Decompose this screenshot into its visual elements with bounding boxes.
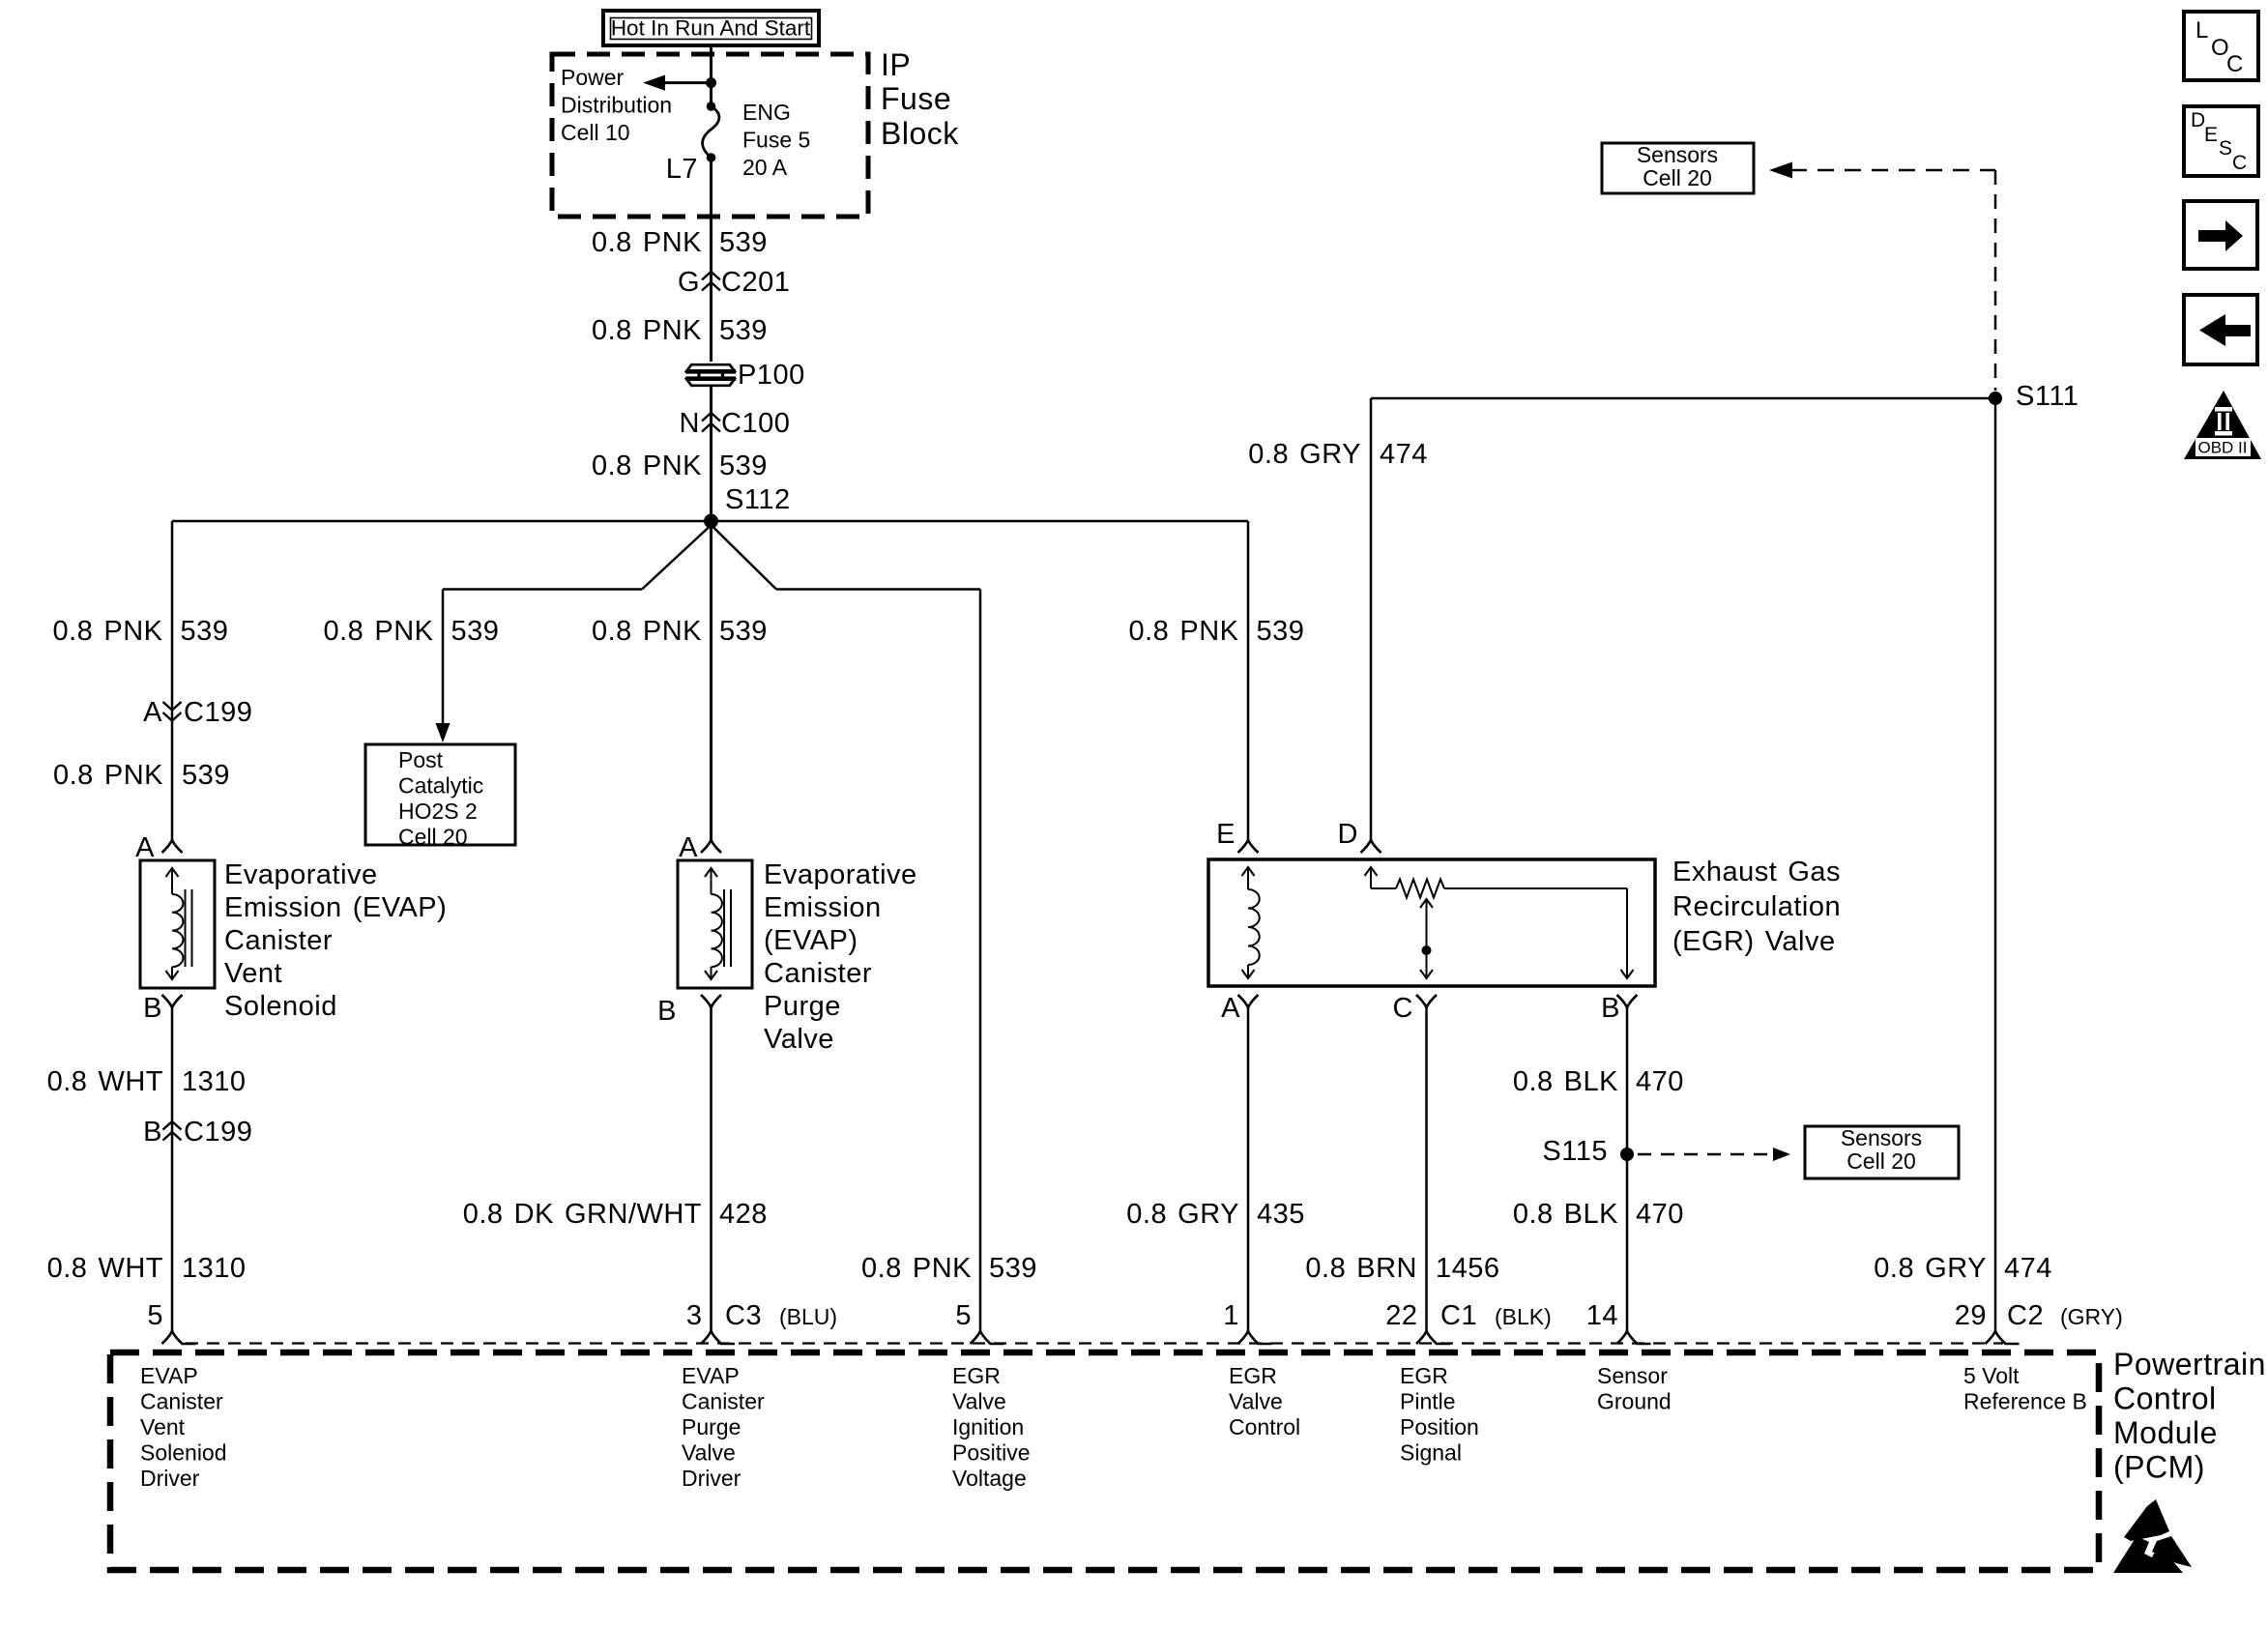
svg-text:Emission (EVAP): Emission (EVAP) — [224, 892, 447, 923]
wire S112 diagonal left — [642, 527, 710, 590]
splice S112 — [704, 514, 718, 529]
svg-text:539: 539 — [1257, 616, 1305, 647]
wire resistor to pin B leg — [1444, 887, 1627, 889]
svg-text:L7: L7 — [666, 154, 698, 185]
connector C199 pin A chevrons — [163, 702, 182, 721]
terminal pin 5 EVAP vent — [162, 1331, 196, 1344]
svg-text:1310: 1310 — [182, 1253, 247, 1284]
svg-text:EVAP: EVAP — [682, 1363, 740, 1388]
arrowhead into Post Catalytic HO2S 2 — [436, 723, 451, 742]
svg-text:Valve: Valve — [952, 1389, 1006, 1414]
svg-text:S112: S112 — [725, 484, 791, 515]
svg-text:470: 470 — [1636, 1066, 1684, 1097]
EGR solenoid coil element — [1247, 867, 1249, 889]
purge valve coil element — [711, 868, 712, 894]
svg-text:0.8 PNK: 0.8 PNK — [53, 760, 163, 791]
svg-text:Module: Module — [2113, 1415, 2218, 1450]
terminal pin 1 EGR valve control — [1238, 1331, 1272, 1344]
box Sensors Cell 20 (top) — [1602, 143, 1754, 193]
Powertrain Control Module dashed outline — [110, 1352, 2099, 1570]
svg-text:Control: Control — [2113, 1381, 2217, 1416]
svg-text:Power: Power — [561, 65, 625, 90]
svg-text:S111: S111 — [2016, 381, 2079, 412]
EVAP canister vent solenoid box — [140, 860, 215, 988]
terminal A vent solenoid — [162, 840, 183, 853]
svg-text:0.8 PNK: 0.8 PNK — [53, 616, 163, 647]
splice S111 — [1989, 392, 2002, 405]
fuse bottom terminal dot — [707, 153, 716, 162]
svg-text:Post: Post — [398, 747, 444, 772]
wire down to Post Catalytic arrow — [442, 590, 445, 728]
svg-text:0.8 BLK: 0.8 BLK — [1513, 1199, 1618, 1230]
svg-text:Cell 20: Cell 20 — [1846, 1148, 1916, 1174]
terminal B vent solenoid — [162, 995, 183, 1007]
svg-text:Purge: Purge — [682, 1414, 741, 1439]
svg-text:0.8 PNK: 0.8 PNK — [861, 1253, 972, 1284]
svg-text:EVAP: EVAP — [140, 1363, 198, 1388]
wire fuse to S112 — [710, 158, 712, 521]
svg-text:D: D — [1338, 819, 1358, 850]
svg-text:5 Volt: 5 Volt — [1963, 1363, 2020, 1388]
svg-text:ENG: ENG — [742, 100, 791, 125]
svg-text:C201: C201 — [721, 267, 790, 298]
svg-text:Control: Control — [1229, 1414, 1300, 1439]
svg-text:Signal: Signal — [1400, 1440, 1462, 1466]
svg-text:539: 539 — [451, 616, 500, 647]
svg-text:C: C — [2226, 51, 2243, 77]
svg-text:C: C — [2232, 152, 2247, 174]
arrowhead to Sensors Cell 20 — [1769, 162, 1792, 179]
PCM connector face dashed line — [186, 1342, 2003, 1344]
box Sensors Cell 20 (lower) — [1805, 1126, 1959, 1178]
connector C201 chevrons — [702, 272, 720, 291]
wire S112 diagonal right — [713, 527, 777, 590]
svg-text:474: 474 — [1380, 439, 1428, 470]
icon box LOC — [2184, 12, 2258, 80]
svg-text:L: L — [2195, 17, 2208, 44]
svg-text:22: 22 — [1385, 1300, 1417, 1331]
icon OBD II triangle — [2184, 391, 2261, 459]
fuse ENG Fuse 5 20 A element — [703, 106, 719, 158]
potentiometer resistor zigzag — [1396, 880, 1444, 898]
svg-text:(PCM): (PCM) — [2113, 1450, 2205, 1485]
svg-text:Driver: Driver — [140, 1466, 200, 1491]
svg-text:HO2S 2: HO2S 2 — [398, 799, 478, 824]
svg-text:Pintle: Pintle — [1400, 1389, 1456, 1414]
svg-text:S: S — [2219, 137, 2232, 160]
vent solenoid core line 1 — [185, 889, 187, 967]
box Hot In Run And Start (outer) — [603, 11, 819, 45]
svg-text:Sensor: Sensor — [1597, 1363, 1668, 1388]
svg-text:P100: P100 — [738, 360, 805, 391]
svg-text:539: 539 — [719, 315, 768, 346]
svg-text:0.8 PNK: 0.8 PNK — [1129, 616, 1239, 647]
wire purge valve to PCM pin 3 — [710, 1007, 712, 1331]
wire junction to fuse — [710, 83, 712, 106]
box Post Catalytic HO2S 2 Cell 20 — [365, 744, 515, 845]
potentiometer wiper — [1420, 899, 1433, 908]
svg-text:Valve: Valve — [682, 1440, 736, 1466]
terminal pin 5 EGR ignition — [971, 1331, 1004, 1344]
wire S112 to EGR pin E — [1247, 521, 1250, 840]
wire header to junction — [710, 45, 712, 83]
terminal pin 14 sensor ground — [1617, 1331, 1651, 1344]
arrowhead to Power Distribution — [643, 75, 665, 91]
EGR internal line to pin B — [1626, 888, 1628, 978]
svg-text:A: A — [679, 832, 698, 863]
EGR valve box — [1208, 859, 1655, 986]
svg-text:C100: C100 — [721, 408, 790, 439]
EGR pintle position potentiometer — [1365, 867, 1378, 876]
svg-text:Cell 10: Cell 10 — [561, 120, 630, 145]
svg-text:5: 5 — [955, 1300, 972, 1331]
svg-text:Powertrain: Powertrain — [2113, 1347, 2266, 1381]
icon box DESC — [2184, 106, 2258, 176]
EVAP canister purge valve box — [678, 860, 752, 988]
svg-text:N: N — [680, 408, 700, 439]
svg-text:S115: S115 — [1542, 1136, 1608, 1167]
svg-text:Ignition: Ignition — [952, 1414, 1024, 1439]
svg-text:1310: 1310 — [182, 1066, 247, 1097]
svg-text:Positive: Positive — [952, 1440, 1031, 1466]
svg-text:Vent: Vent — [140, 1414, 186, 1439]
svg-text:539: 539 — [719, 451, 768, 481]
svg-text:C: C — [1393, 993, 1413, 1024]
ESD sensitive device symbol — [2124, 1499, 2169, 1541]
svg-text:Canister: Canister — [764, 958, 872, 989]
svg-text:Evaporative: Evaporative — [224, 859, 378, 890]
svg-text:0.8 BLK: 0.8 BLK — [1513, 1066, 1618, 1097]
arrowhead to Sensors Cell 20 (lower) — [1773, 1148, 1790, 1161]
svg-text:0.8 GRY: 0.8 GRY — [1126, 1199, 1239, 1230]
dashed wire S111 up to Sensors — [1994, 170, 1997, 391]
svg-text:539: 539 — [989, 1253, 1037, 1284]
svg-text:Distribution: Distribution — [561, 93, 672, 118]
svg-text:C3: C3 — [725, 1300, 762, 1331]
svg-text:B: B — [143, 1117, 162, 1148]
svg-text:Catalytic: Catalytic — [398, 773, 483, 799]
svg-text:C199: C199 — [184, 1117, 252, 1148]
terminal A purge valve — [701, 840, 721, 853]
svg-text:Valve: Valve — [1229, 1389, 1283, 1414]
svg-text:Sensors: Sensors — [1637, 142, 1718, 167]
svg-text:Fuse 5: Fuse 5 — [742, 128, 810, 153]
svg-text:Position: Position — [1400, 1414, 1479, 1439]
svg-text:0.8 PNK: 0.8 PNK — [592, 616, 702, 647]
svg-text:(EVAP): (EVAP) — [764, 925, 858, 956]
svg-text:Emission: Emission — [764, 892, 882, 923]
svg-text:Vent: Vent — [224, 958, 282, 989]
IP Fuse Block dashed outline — [552, 54, 868, 217]
icon box left arrow — [2184, 295, 2257, 364]
svg-text:Reference B: Reference B — [1963, 1389, 2087, 1414]
icon right arrow — [2198, 220, 2243, 251]
svg-text:C199: C199 — [184, 697, 252, 728]
svg-text:Driver: Driver — [682, 1466, 741, 1491]
svg-text:Valve: Valve — [764, 1024, 834, 1055]
svg-text:C2: C2 — [2007, 1300, 2044, 1331]
wire down to EGR pin D — [1370, 398, 1373, 840]
wire EGR A to PCM pin 1 — [1247, 1007, 1250, 1331]
svg-text:539: 539 — [182, 760, 230, 791]
terminal D EGR — [1361, 840, 1381, 853]
svg-text:14: 14 — [1586, 1300, 1618, 1331]
terminal pin 22 EGR pintle — [1416, 1331, 1450, 1344]
svg-text:539: 539 — [719, 616, 768, 647]
svg-text:Hot In Run And Start: Hot In Run And Start — [611, 16, 811, 41]
svg-text:(GRY): (GRY) — [2060, 1304, 2123, 1329]
vent solenoid core line 2 — [191, 889, 193, 967]
svg-text:539: 539 — [719, 227, 768, 258]
wire to Post Catalytic branch — [443, 588, 642, 591]
svg-text:Canister: Canister — [140, 1389, 223, 1414]
purge valve core line 1 — [723, 889, 725, 967]
wire to EGR ignition voltage branch — [776, 588, 980, 591]
svg-text:Soleniod: Soleniod — [140, 1440, 227, 1466]
terminal pin 3 EVAP purge — [701, 1331, 735, 1344]
svg-text:(EGR) Valve: (EGR) Valve — [1672, 926, 1836, 957]
svg-text:B: B — [143, 993, 162, 1024]
dashed wire S115 to Sensors — [1638, 1153, 1775, 1156]
OBD II label plate — [2195, 438, 2251, 456]
svg-text:Recirculation: Recirculation — [1672, 891, 1841, 922]
svg-text:G: G — [678, 267, 700, 298]
svg-text:Cell 20: Cell 20 — [1643, 165, 1712, 190]
svg-text:EGR: EGR — [1229, 1363, 1277, 1388]
svg-text:IP: IP — [881, 47, 911, 82]
svg-text:Solenoid: Solenoid — [224, 991, 337, 1022]
svg-text:0.8 GRY: 0.8 GRY — [1248, 439, 1361, 470]
junction dot — [706, 77, 716, 88]
svg-text:OBD II: OBD II — [2197, 439, 2247, 457]
svg-text:EGR: EGR — [1400, 1363, 1448, 1388]
icon box right arrow — [2184, 201, 2257, 269]
wiper junction dot — [1422, 945, 1432, 955]
svg-text:Voltage: Voltage — [952, 1466, 1027, 1491]
svg-text:5: 5 — [147, 1300, 163, 1331]
svg-text:EGR: EGR — [952, 1363, 1001, 1388]
wire S112 to EVAP purge valve — [710, 521, 712, 840]
svg-text:Ground: Ground — [1597, 1389, 1672, 1414]
svg-text:Cell 20: Cell 20 — [398, 825, 468, 850]
terminal E EGR — [1238, 840, 1259, 853]
svg-text:435: 435 — [1257, 1199, 1305, 1230]
svg-text:0.8 BRN: 0.8 BRN — [1305, 1253, 1417, 1284]
svg-text:Fuse: Fuse — [881, 81, 951, 116]
wire down to PCM pin 5 (EGR ignition) — [979, 590, 982, 1332]
svg-text:A: A — [143, 697, 162, 728]
svg-text:0.8 PNK: 0.8 PNK — [592, 451, 702, 481]
svg-text:A: A — [1221, 993, 1240, 1024]
svg-text:B: B — [1601, 993, 1620, 1024]
svg-text:Purge: Purge — [764, 991, 841, 1022]
wire S112 horizontal bus — [172, 520, 1248, 523]
svg-text:Sensors: Sensors — [1841, 1125, 1922, 1150]
svg-text:Block: Block — [881, 116, 959, 151]
svg-text:E: E — [1216, 819, 1236, 850]
svg-text:E: E — [2204, 124, 2218, 146]
wire to Power Distribution — [665, 81, 712, 84]
terminal B EGR — [1617, 995, 1638, 1007]
svg-text:29: 29 — [1955, 1300, 1987, 1331]
svg-text:0.8 DK GRN/WHT: 0.8 DK GRN/WHT — [463, 1199, 702, 1230]
terminal pin 29 5V ref — [1986, 1331, 2020, 1344]
connector C199 pin B chevrons — [163, 1121, 182, 1141]
svg-text:0.8 PNK: 0.8 PNK — [324, 616, 434, 647]
icon left arrow — [2199, 314, 2251, 346]
wire S112 to EVAP vent solenoid — [171, 521, 174, 840]
wire vent solenoid to PCM pin 5 — [171, 1007, 174, 1331]
OBD II roman numeral II — [2215, 407, 2232, 436]
svg-text:C1: C1 — [1440, 1300, 1477, 1331]
svg-text:0.8 PNK: 0.8 PNK — [592, 227, 702, 258]
wire S111 to PCM pin 29 — [1994, 398, 1997, 1331]
svg-text:0.8 WHT: 0.8 WHT — [47, 1253, 163, 1284]
svg-text:1456: 1456 — [1436, 1253, 1500, 1284]
svg-text:0.8 PNK: 0.8 PNK — [592, 315, 702, 346]
wire EGR B to PCM pin 14 — [1626, 1007, 1629, 1331]
vent solenoid coil element — [171, 868, 173, 894]
svg-text:539: 539 — [181, 616, 229, 647]
grommet P100 — [686, 362, 736, 386]
terminal B purge valve — [701, 995, 721, 1007]
svg-text:Canister: Canister — [224, 925, 333, 956]
box Hot In Run And Start (inner) — [611, 18, 812, 40]
svg-text:0.8 WHT: 0.8 WHT — [47, 1066, 163, 1097]
svg-text:3: 3 — [686, 1300, 703, 1331]
wire EGR C to PCM pin 22 — [1425, 1007, 1428, 1331]
svg-text:A: A — [135, 832, 155, 863]
wire S111 to EGR pin D — [1371, 397, 1995, 400]
svg-text:B: B — [657, 996, 677, 1027]
connector C100 chevrons — [702, 413, 720, 432]
svg-text:0.8 GRY: 0.8 GRY — [1874, 1253, 1987, 1284]
svg-text:D: D — [2191, 109, 2205, 131]
svg-text:1: 1 — [1223, 1300, 1239, 1331]
purge valve core line 2 — [730, 889, 732, 967]
svg-text:20 A: 20 A — [742, 155, 788, 180]
terminal A EGR — [1238, 995, 1259, 1007]
svg-text:470: 470 — [1636, 1199, 1684, 1230]
dashed wire to Sensors Cell 20 — [1790, 169, 1995, 172]
fuse top terminal dot — [707, 102, 716, 111]
svg-text:(BLU): (BLU) — [779, 1304, 837, 1329]
svg-text:428: 428 — [719, 1199, 768, 1230]
svg-text:474: 474 — [2004, 1253, 2052, 1284]
svg-text:Evaporative: Evaporative — [764, 859, 917, 890]
svg-text:Canister: Canister — [682, 1389, 765, 1414]
terminal C EGR — [1416, 995, 1437, 1007]
splice S115 — [1620, 1148, 1634, 1161]
svg-text:(BLK): (BLK) — [1495, 1304, 1552, 1329]
svg-text:Exhaust Gas: Exhaust Gas — [1672, 857, 1841, 887]
